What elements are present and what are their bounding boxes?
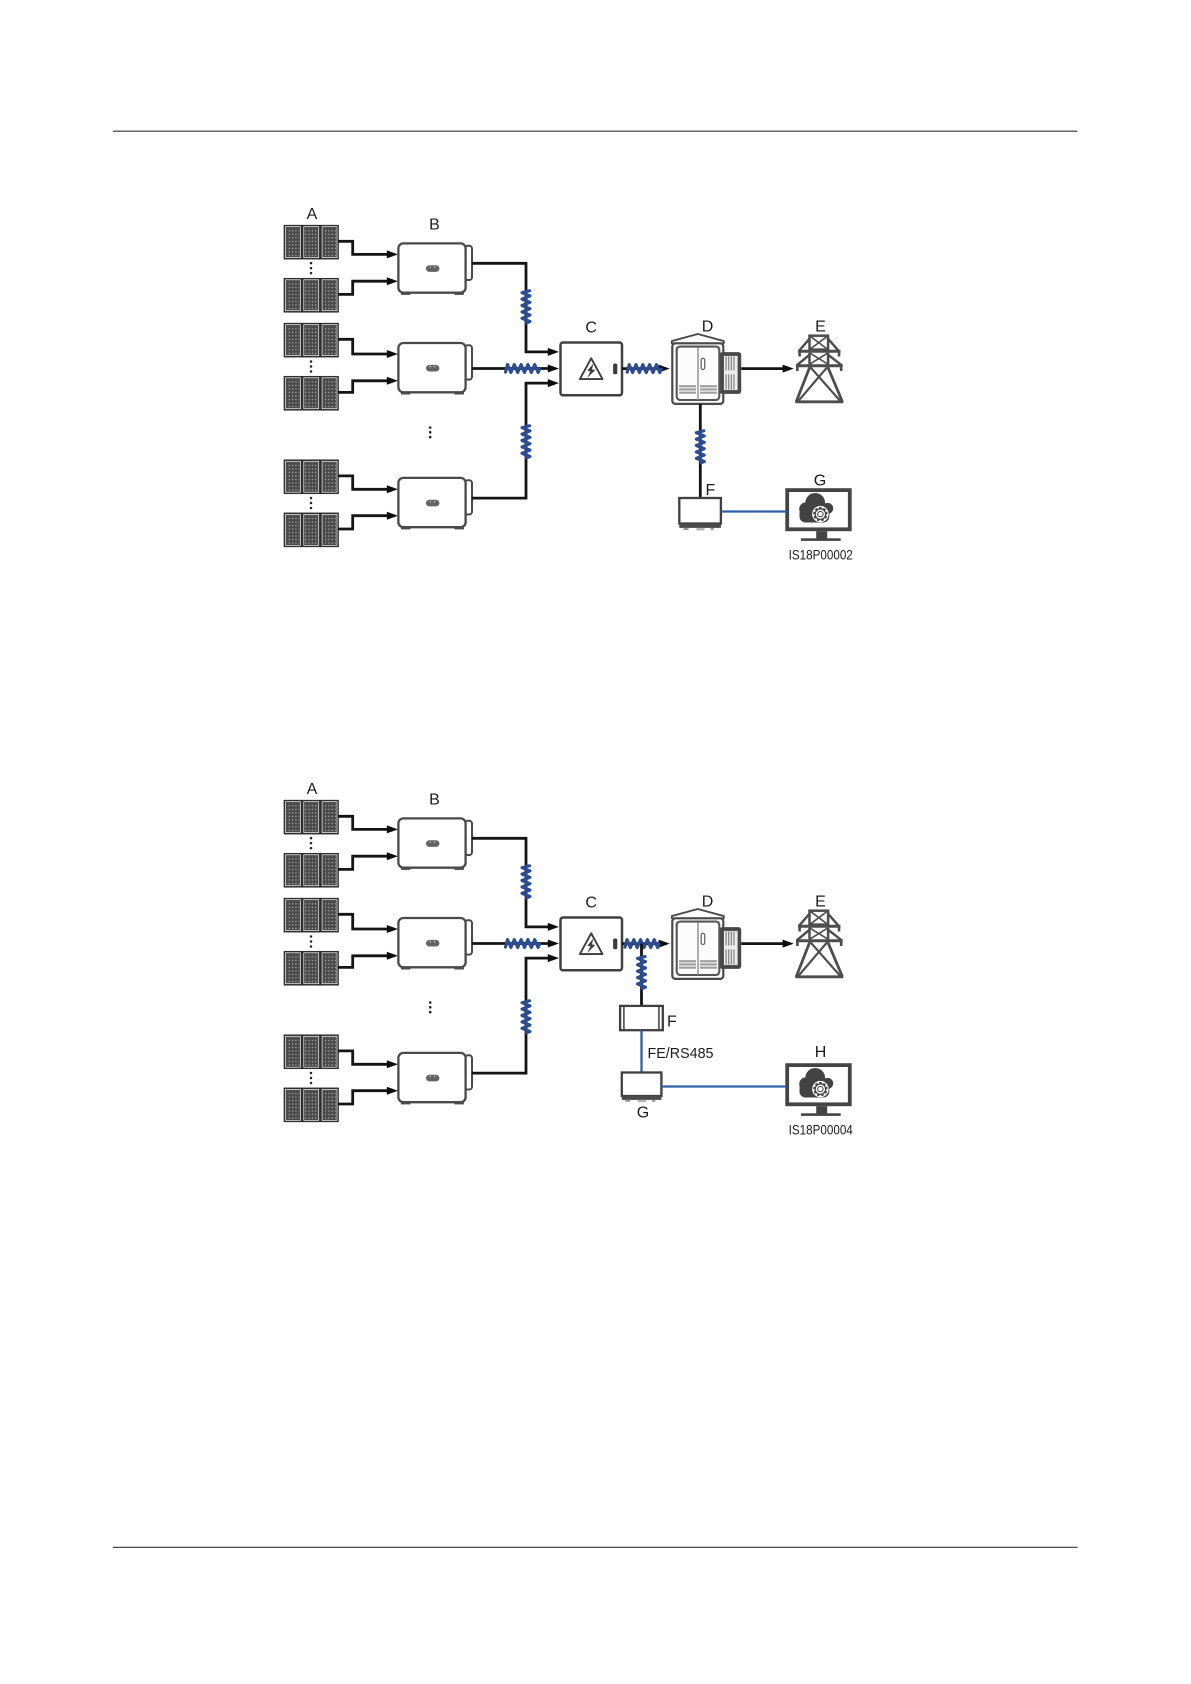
PV panel group A2.1 [284, 801, 338, 834]
inverter B2.1 [398, 818, 472, 870]
svg-text:IS18P00004: IS18P00004 [789, 1121, 853, 1137]
wire transformer D to power grid E (diagram 1) [741, 365, 794, 373]
wire PV group 3 to inverter (diagram 2) [338, 914, 398, 933]
twisted pair symbol on C-D wire [627, 365, 661, 373]
twisted pair symbol on inverter-3 wire [522, 1001, 530, 1033]
ellipsis dots between PV groups (string 1) [310, 837, 313, 850]
wire box C to transformer D (diagram 2) [622, 940, 670, 948]
wire PV group 2 to inverter (diagram 2) [338, 852, 398, 869]
wire PV group 1 to inverter (diagram 2) [338, 816, 398, 833]
router F [620, 1006, 663, 1030]
wire PV group 6 to inverter (diagram 2) [338, 1087, 398, 1104]
ellipsis dots between PV groups (string 3) [310, 497, 313, 510]
twisted pair symbol on D-F wire [696, 431, 704, 463]
twisted pair symbol on C-D wire [625, 940, 659, 948]
wire inverter 3 output to box C (diagram 2) [472, 954, 559, 1073]
svg-text:G: G [814, 473, 826, 490]
PV panel group A1.1 [284, 226, 338, 259]
svg-text:A: A [307, 781, 318, 798]
wire PV group 4 to inverter (diagram 1) [338, 377, 398, 393]
svg-text:A: A [307, 206, 318, 223]
AC combiner box C (diagram 2) [561, 918, 623, 971]
PV panel group A2.4 [284, 952, 338, 985]
svg-text:IS18P00002: IS18P00002 [789, 546, 853, 562]
monitoring system G (monitor with cloud) [787, 490, 850, 541]
inverter B1.1 [398, 243, 472, 295]
wire box C to transformer D (diagram 1) [622, 365, 670, 373]
svg-text:B: B [429, 792, 440, 809]
wire inverter 2 output to box C (diagram 1) [472, 365, 559, 373]
wire transformer D down to device F [699, 404, 702, 498]
power grid tower E (diagram 2) [795, 911, 843, 977]
twisted pair symbol on inverter-2 wire [506, 940, 540, 948]
twisted pair symbol on inverter-1 wire [522, 291, 530, 323]
data logger F [679, 498, 721, 530]
svg-text:G: G [637, 1105, 649, 1122]
PV panel group A1.3 [284, 324, 338, 357]
svg-text:B: B [429, 217, 440, 234]
svg-text:C: C [585, 320, 597, 337]
page footer rule [113, 1546, 1078, 1548]
svg-text:H: H [815, 1044, 827, 1061]
wire junction between C and D down to router F [640, 944, 643, 1006]
PV panel group A2.2 [284, 854, 338, 887]
ellipsis dots between inverters [429, 426, 432, 438]
wire inverter 1 output to box C (diagram 2) [472, 838, 559, 931]
PV panel group A1.6 [284, 513, 338, 546]
svg-text:C: C [585, 895, 597, 912]
svg-text:E: E [815, 319, 826, 336]
wire inverter 2 output to box C (diagram 2) [472, 940, 559, 948]
wire inverter 3 output to box C (diagram 1) [472, 379, 559, 498]
ellipsis dots between PV groups (string 1) [310, 262, 313, 275]
twisted pair symbol on inverter-2 wire [506, 365, 540, 373]
PV panel group A2.6 [284, 1088, 338, 1121]
twisted pair symbol on inverter-3 wire [522, 426, 530, 458]
PV panel group A1.2 [284, 279, 338, 312]
transformer station D (diagram 1) [672, 334, 741, 404]
PV panel group A1.4 [284, 377, 338, 410]
PV panel group A2.5 [284, 1035, 338, 1068]
inverter B2.2 [398, 918, 472, 970]
inverter B2.3 [398, 1053, 472, 1105]
svg-text:E: E [815, 894, 826, 911]
ellipsis dots between PV groups (string 2) [310, 935, 313, 948]
ellipsis dots between PV groups (string 2) [310, 360, 313, 373]
AC combiner box C (diagram 1) [561, 343, 623, 396]
svg-text:F: F [667, 1014, 677, 1031]
monitoring system H (monitor with cloud) [787, 1065, 850, 1116]
communication wire G to monitoring system H [661, 1085, 785, 1087]
communication wire F to G (FE/RS485) [640, 1030, 642, 1072]
data logger G [622, 1073, 662, 1103]
PV panel group A1.5 [284, 460, 338, 493]
ellipsis dots between inverters [429, 1001, 432, 1013]
twisted pair symbol on junction-F wire [638, 957, 646, 989]
PV panel group A2.3 [284, 899, 338, 932]
wire PV group 2 to inverter (diagram 1) [338, 277, 398, 294]
wire inverter 1 output to box C (diagram 1) [472, 263, 559, 356]
wire PV group 3 to inverter (diagram 1) [338, 339, 398, 358]
power grid tower E (diagram 1) [795, 336, 843, 402]
wire PV group 5 to inverter (diagram 2) [338, 1051, 398, 1068]
wire PV group 4 to inverter (diagram 2) [338, 952, 398, 968]
communication wire F to monitoring system G [721, 510, 785, 512]
inverter B1.2 [398, 343, 472, 395]
wire PV group 6 to inverter (diagram 1) [338, 512, 398, 529]
transformer station D (diagram 2) [672, 909, 741, 979]
wire PV group 5 to inverter (diagram 1) [338, 476, 398, 493]
page header rule [113, 130, 1078, 132]
svg-text:D: D [702, 319, 714, 336]
wire transformer D to power grid E (diagram 2) [741, 940, 794, 948]
svg-text:D: D [702, 894, 714, 911]
wire PV group 1 to inverter (diagram 1) [338, 241, 398, 258]
twisted pair symbol on inverter-1 wire [522, 866, 530, 898]
svg-text:FE/RS485: FE/RS485 [648, 1045, 714, 1062]
inverter B1.3 [398, 478, 472, 530]
svg-text:F: F [706, 482, 716, 499]
ellipsis dots between PV groups (string 3) [310, 1072, 313, 1085]
